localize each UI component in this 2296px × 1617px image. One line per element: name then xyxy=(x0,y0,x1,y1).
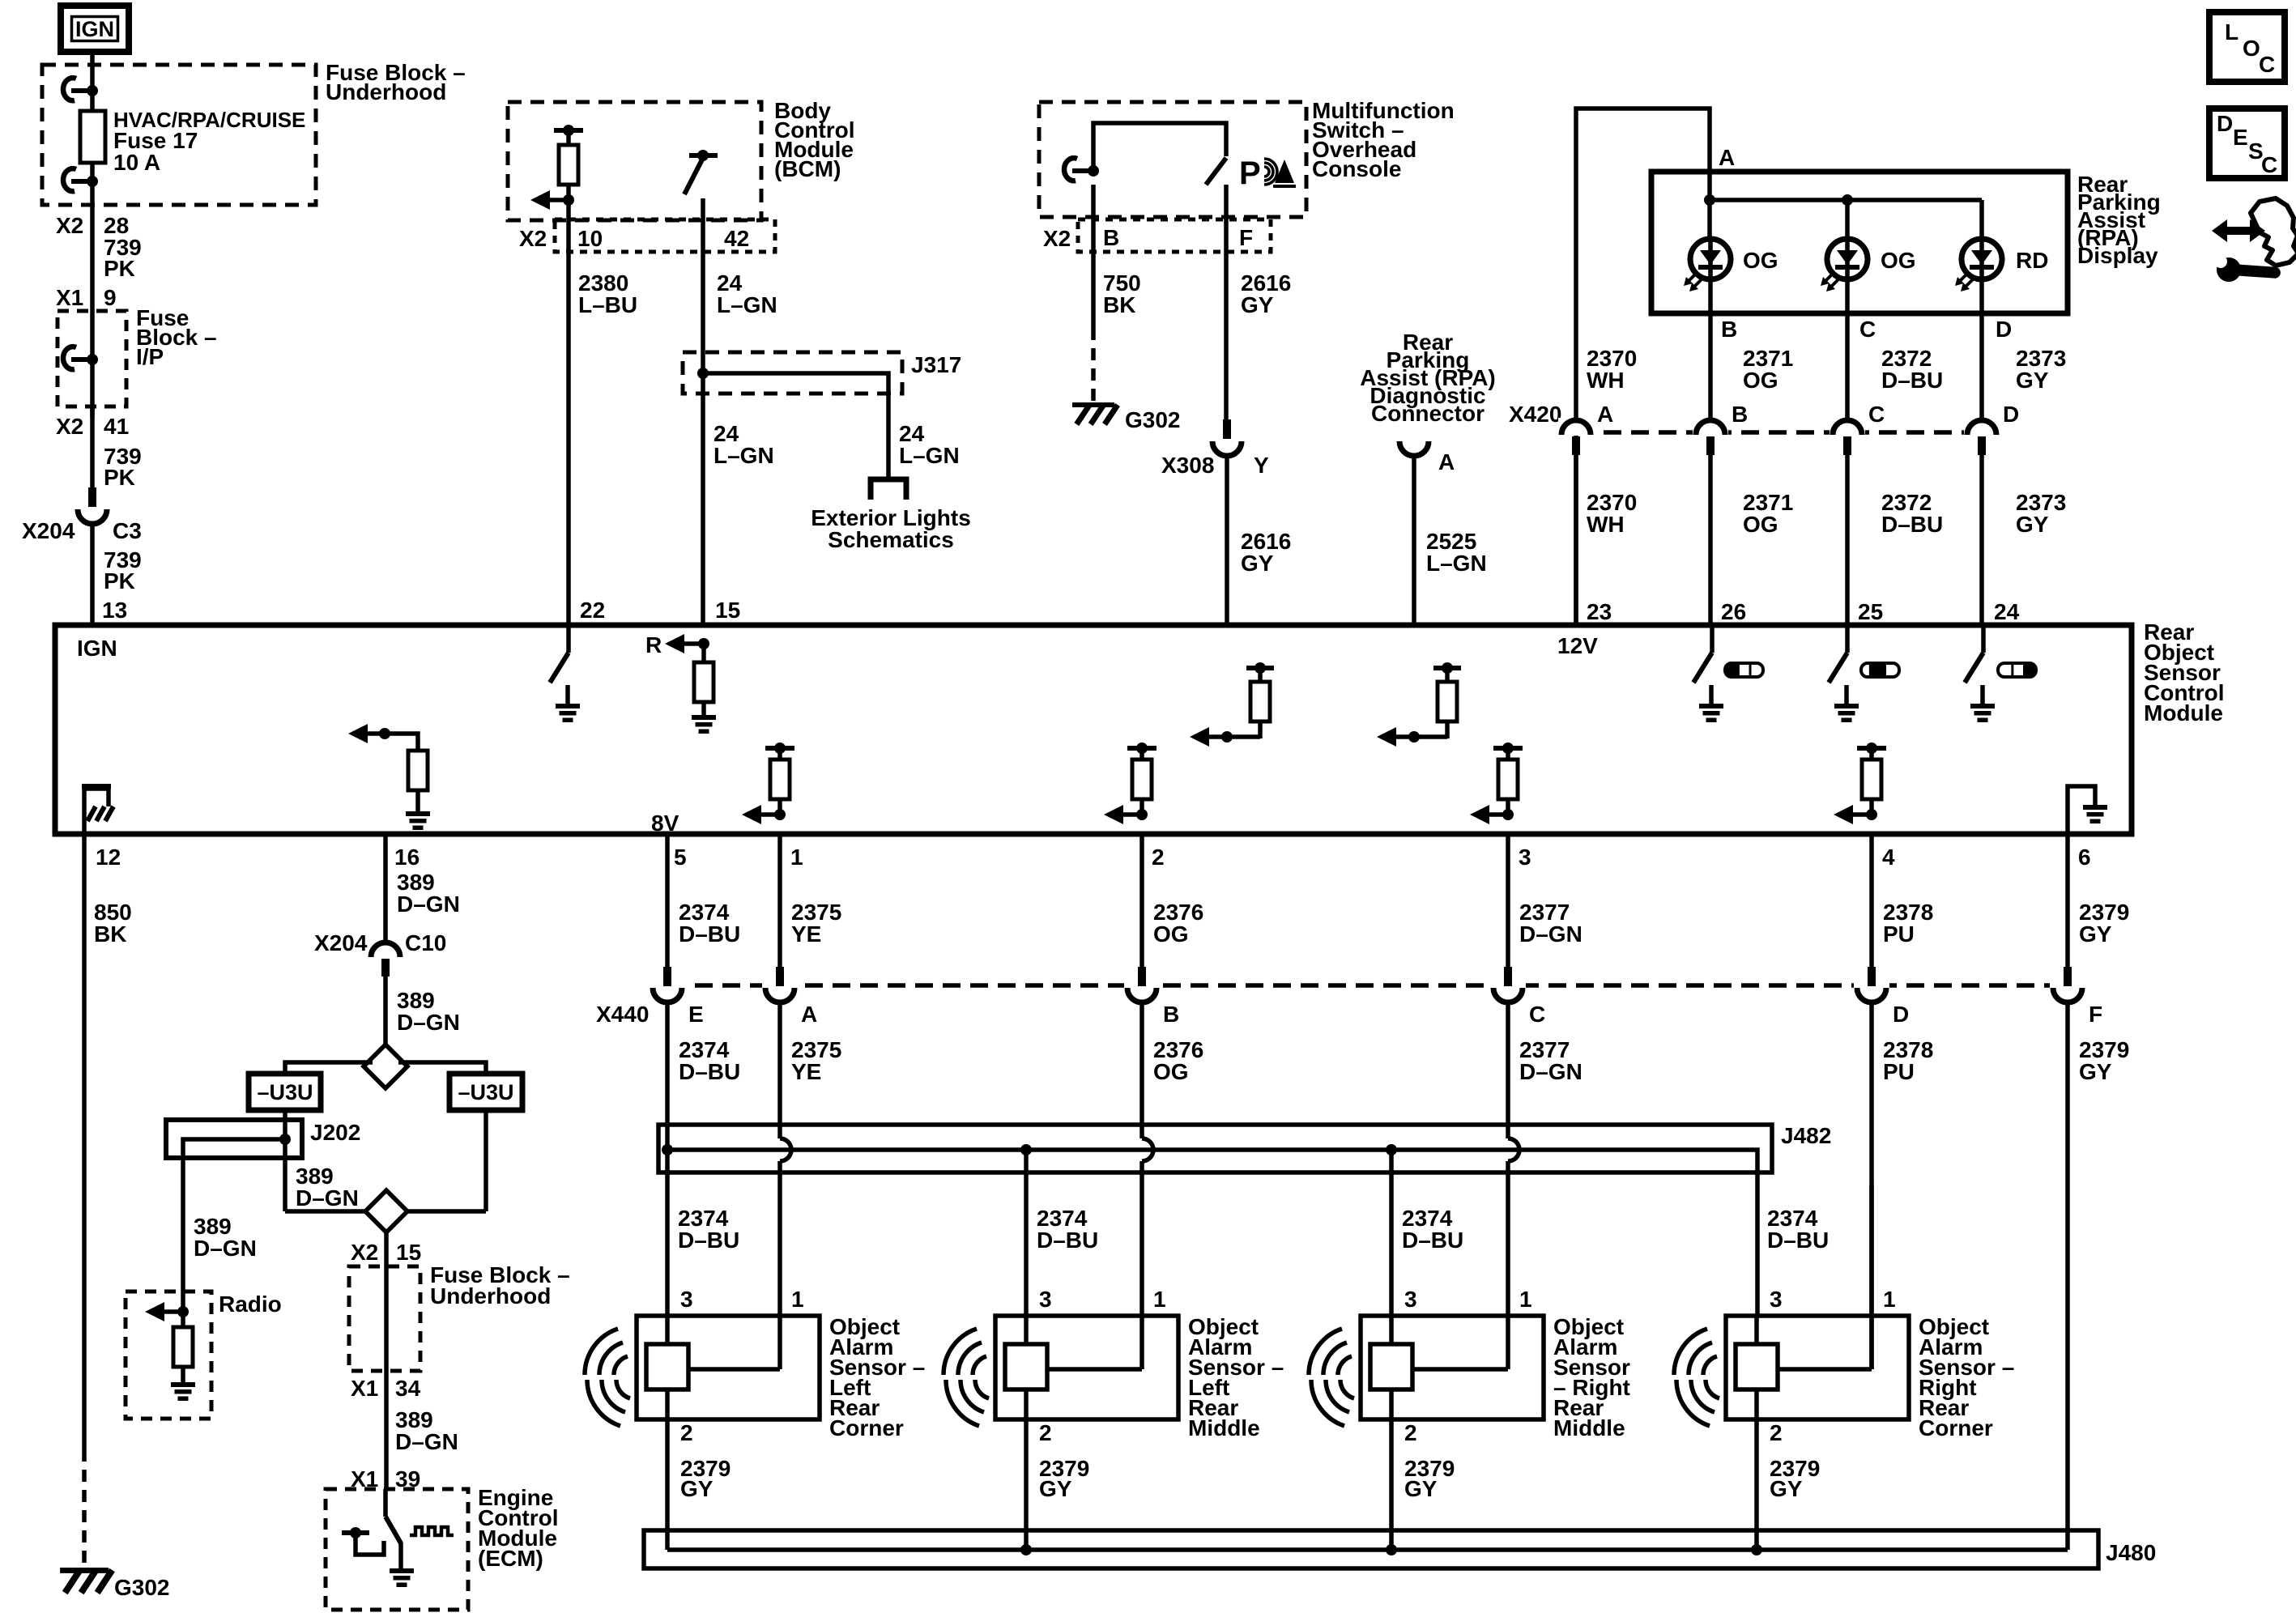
svg-text:L–GN: L–GN xyxy=(899,443,960,468)
svg-text:13: 13 xyxy=(102,598,127,623)
wire 2375 YE through J482 to sensor 1 xyxy=(777,1002,782,1138)
multifunction internal top wire xyxy=(1093,123,1226,171)
ultrasonic sound waves icon xyxy=(973,1356,986,1375)
svg-text:X2: X2 xyxy=(56,414,83,439)
J482 hop over wire B xyxy=(1142,1138,1153,1161)
svg-text:P: P xyxy=(1239,155,1261,191)
svg-text:Radio: Radio xyxy=(219,1291,282,1317)
svg-text:E: E xyxy=(2233,125,2248,150)
ECM square wave signal symbol xyxy=(410,1527,454,1535)
svg-text:42: 42 xyxy=(724,226,749,251)
svg-text:RD: RD xyxy=(2016,248,2048,273)
svg-text:D: D xyxy=(2003,402,2019,427)
LOC legend box xyxy=(2209,12,2285,82)
svg-text:I/P: I/P xyxy=(136,344,164,369)
svg-text:X420: X420 xyxy=(1509,402,1561,427)
svg-text:3: 3 xyxy=(1404,1287,1417,1312)
wire 2380 L-BU xyxy=(566,200,571,625)
svg-text:23: 23 xyxy=(1587,599,1612,624)
wire xyxy=(90,311,95,418)
svg-text:8V: 8V xyxy=(651,811,679,836)
wire 389 D-GN from pin 16 xyxy=(383,834,388,943)
connector X308 male stub xyxy=(1223,419,1231,439)
svg-text:X2: X2 xyxy=(56,213,83,238)
svg-text:25: 25 xyxy=(1858,599,1883,624)
BCM internal supply T-bar xyxy=(554,128,583,133)
svg-text:X308: X308 xyxy=(1161,453,1214,478)
BCM internal resistor xyxy=(566,133,571,145)
svg-text:12V: 12V xyxy=(1557,633,1598,658)
ECM internal switch blade xyxy=(383,1489,388,1517)
svg-text:OG: OG xyxy=(1153,921,1189,947)
svg-text:2: 2 xyxy=(1404,1420,1417,1445)
connector X440 cavity E xyxy=(650,968,685,1002)
svg-text:Module: Module xyxy=(2144,700,2223,726)
svg-text:X440: X440 xyxy=(596,1002,649,1027)
option box -U3U left xyxy=(249,1074,321,1110)
svg-text:Middle: Middle xyxy=(1188,1415,1260,1440)
multifunction pin row dashed box xyxy=(1078,219,1271,252)
wire 2525 L-GN xyxy=(1412,455,1416,625)
branch wire 2374 D-BU to sensor3 xyxy=(1389,1150,1394,1316)
wire xyxy=(90,91,95,111)
wire 2372 D-BU upper xyxy=(1845,313,1850,421)
BCM internal switch blade xyxy=(684,158,703,194)
sensor pin 3 wire through square xyxy=(665,1316,670,1344)
Fuse Block - Underhood dashed box lower xyxy=(349,1266,420,1371)
svg-text:D–GN: D–GN xyxy=(397,1010,460,1035)
splice pack J480 box xyxy=(644,1530,2098,1568)
J202 junction dot xyxy=(279,1134,291,1145)
svg-text:D–GN: D–GN xyxy=(395,1429,458,1454)
splice J317 dashed box xyxy=(683,352,902,394)
wire 2377 D-GN through J482 to sensor 3 xyxy=(1506,1002,1510,1138)
svg-text:3: 3 xyxy=(680,1287,693,1312)
svg-text:5: 5 xyxy=(674,845,687,870)
wire xyxy=(90,406,95,487)
ECM internal contact hook xyxy=(342,1530,369,1535)
svg-text:Corner: Corner xyxy=(829,1415,904,1440)
svg-text:4: 4 xyxy=(1882,845,1895,870)
splice pack J482 box xyxy=(658,1125,1772,1172)
sensor pin 3 wire through square xyxy=(1754,1316,1759,1344)
sensor pin1 internal link xyxy=(1047,1367,1142,1372)
display internal feed bus xyxy=(1707,172,1712,239)
svg-text:1: 1 xyxy=(790,845,803,870)
svg-text:41: 41 xyxy=(104,414,129,439)
svg-text:C3: C3 xyxy=(113,518,142,543)
svg-text:J482: J482 xyxy=(1781,1123,1831,1148)
svg-text:GY: GY xyxy=(680,1476,714,1501)
svg-text:3: 3 xyxy=(1039,1287,1052,1312)
sensor pin 1 wire xyxy=(1506,1185,1510,1369)
Radio dashed box xyxy=(126,1291,211,1419)
wire 2373 GY lower xyxy=(1979,454,1984,625)
J482 hop over wire A xyxy=(780,1138,791,1161)
connector X420 cavity B xyxy=(1693,418,1728,436)
svg-text:A: A xyxy=(1438,449,1455,474)
svg-text:PK: PK xyxy=(104,465,135,490)
svg-text:GY: GY xyxy=(1241,551,1274,576)
svg-text:GY: GY xyxy=(2016,368,2049,393)
ECM internal wire to ground xyxy=(398,1543,403,1568)
wire to right -U3U option xyxy=(398,1062,486,1074)
svg-text:3: 3 xyxy=(1519,845,1531,870)
object alarm sensor box at x=2169 xyxy=(1726,1316,1909,1419)
svg-text:OG: OG xyxy=(1743,368,1778,393)
radio internal resistor xyxy=(181,1312,185,1327)
svg-text:15: 15 xyxy=(396,1240,421,1265)
svg-text:D–BU: D–BU xyxy=(1402,1228,1463,1253)
wire 2379 GY pin6 to X440 xyxy=(2065,834,2070,968)
svg-text:2: 2 xyxy=(1152,845,1165,870)
svg-text:B: B xyxy=(1103,225,1119,250)
BCM internal junction + left arrow xyxy=(566,185,571,200)
svg-text:D–GN: D–GN xyxy=(1519,921,1582,947)
fuse clip I/P xyxy=(71,357,92,362)
connector X308 female cup xyxy=(1212,441,1242,456)
svg-text:D: D xyxy=(1893,1002,1909,1027)
sensor pin 3 wire through square xyxy=(1024,1316,1029,1344)
svg-text:G302: G302 xyxy=(114,1575,170,1600)
svg-text:X204: X204 xyxy=(314,930,368,955)
BCM pin row dashed box xyxy=(555,219,775,252)
svg-text:PU: PU xyxy=(1883,921,1915,947)
IGN power symbol box xyxy=(61,6,129,52)
Body Control Module dashed box xyxy=(508,102,761,220)
svg-text:E: E xyxy=(688,1002,704,1027)
svg-text:F: F xyxy=(2089,1002,2102,1027)
svg-text:G302: G302 xyxy=(1125,407,1181,432)
svg-text:X1: X1 xyxy=(56,285,83,310)
display zone pill right xyxy=(1998,663,2036,677)
Rear Object Sensor Control Module box xyxy=(55,625,2132,834)
svg-text:D–GN: D–GN xyxy=(1519,1059,1582,1084)
J480 internal bus xyxy=(667,1547,2068,1552)
svg-text:A: A xyxy=(801,1002,817,1027)
module internal switch to ground at pin 22 xyxy=(566,628,571,653)
connector X440 cavity A xyxy=(762,968,798,1002)
LED output wires to box bottom xyxy=(1708,279,1713,313)
off-page connector to exterior lights xyxy=(871,479,906,500)
Multifunction Switch - Overhead Console dashed box xyxy=(1039,102,1306,217)
wire 850 BK solid xyxy=(82,834,87,1449)
wire xyxy=(90,163,95,217)
wire to left -U3U option xyxy=(285,1062,373,1074)
svg-text:GY: GY xyxy=(2016,512,2049,537)
svg-text:GY: GY xyxy=(1404,1476,1438,1501)
ground G302 chassis symbol bottom xyxy=(60,1568,109,1573)
fuse HVAC/RPA/CRUISE xyxy=(80,111,105,163)
sensor element square xyxy=(1736,1344,1778,1389)
module internal input from X308 xyxy=(1221,731,1233,743)
wire 2377 D-GN pin3 to X440 xyxy=(1506,834,1510,968)
svg-text:GY: GY xyxy=(2079,1059,2112,1084)
svg-text:GY: GY xyxy=(1770,1476,1803,1501)
svg-text:Console: Console xyxy=(1312,156,1401,181)
svg-text:L–GN: L–GN xyxy=(714,443,774,468)
option box -U3U right xyxy=(449,1074,522,1110)
wire 2616 GY lower xyxy=(1225,455,1229,625)
svg-text:X2: X2 xyxy=(351,1240,378,1265)
svg-text:D: D xyxy=(1996,317,2012,342)
svg-text:Underhood: Underhood xyxy=(326,79,446,104)
sensor pin2 wires to J480 xyxy=(665,1419,670,1550)
ultrasonic sound waves icon xyxy=(1703,1356,1717,1375)
svg-text:2: 2 xyxy=(1039,1420,1052,1445)
svg-text:D–GN: D–GN xyxy=(194,1236,257,1261)
svg-text:IGN: IGN xyxy=(75,17,114,41)
module internal pull-up at pin 1 xyxy=(765,746,794,751)
radio internal ground xyxy=(171,1382,195,1387)
display zone pill middle xyxy=(1861,663,1899,677)
wire 2616 GY upper xyxy=(1224,185,1229,419)
J202 internal bus to radio branch xyxy=(183,1139,285,1312)
svg-text:WH: WH xyxy=(1587,368,1625,393)
connector X204 C10 female cap xyxy=(371,943,400,957)
J482 internal bus xyxy=(667,1150,1757,1172)
svg-text:X1: X1 xyxy=(351,1376,378,1401)
RPA diagnostic connector cup xyxy=(1399,441,1429,456)
wire 2378 PU down to sensor 4 xyxy=(1869,1002,1874,1369)
fuse clip lower xyxy=(71,179,92,184)
svg-text:C: C xyxy=(2261,152,2277,177)
svg-text:IGN: IGN xyxy=(77,636,117,661)
svg-text:X2: X2 xyxy=(1043,226,1071,251)
connector X204 C3 female cup xyxy=(78,509,107,524)
J317 junction dot xyxy=(697,368,709,379)
connector X440 cavity D xyxy=(1854,968,1889,1002)
wire 24 L-GN from pin 42 xyxy=(701,198,705,625)
ground G302 chassis symbol xyxy=(1072,402,1114,407)
svg-text:J317: J317 xyxy=(911,352,961,377)
svg-text:–U3U: –U3U xyxy=(257,1080,313,1104)
wire xyxy=(90,523,95,625)
module internal resistor to ground at pin 15 xyxy=(701,644,706,662)
connector X420 cavity D xyxy=(1964,418,2000,436)
svg-text:10: 10 xyxy=(577,226,603,251)
svg-text:D–GN: D–GN xyxy=(296,1185,359,1211)
svg-text:Display: Display xyxy=(2077,243,2158,268)
svg-text:OG: OG xyxy=(1153,1059,1189,1084)
object alarm sensor box at x=824 xyxy=(637,1316,820,1419)
svg-text:F: F xyxy=(1239,225,1253,250)
svg-text:Corner: Corner xyxy=(1919,1415,1993,1440)
svg-text:C10: C10 xyxy=(405,930,446,955)
connector X204 C10 male stub xyxy=(381,959,390,977)
fuse clip upper xyxy=(71,88,92,93)
wire below lower diamond xyxy=(384,1232,389,1266)
J480 junction dots xyxy=(1020,1544,1032,1555)
wire 750 BK dashed part xyxy=(1091,328,1096,402)
wire right branch down xyxy=(483,1110,488,1211)
svg-text:C: C xyxy=(2259,52,2275,77)
sensor pin1 internal link xyxy=(688,1367,780,1372)
svg-text:3: 3 xyxy=(1770,1287,1783,1312)
module internal input from diagnostic connector xyxy=(1408,731,1420,743)
display zone pill near-left xyxy=(1725,663,1763,677)
connector X440 dashed linkage xyxy=(667,983,2068,988)
svg-text:D–BU: D–BU xyxy=(1881,512,1943,537)
svg-text:C: C xyxy=(1859,317,1876,342)
Fuse Block - Underhood dashed box xyxy=(42,65,316,205)
J317 branch wire right and down xyxy=(703,373,888,477)
splice J202 box xyxy=(166,1120,302,1158)
multifunction switch blade xyxy=(1206,158,1226,185)
svg-text:GY: GY xyxy=(1039,1476,1072,1501)
module internal pull-up at pin 3 xyxy=(1493,746,1523,751)
connector X420 cavity A xyxy=(1558,418,1594,436)
svg-text:J480: J480 xyxy=(2106,1540,2156,1565)
svg-text:YE: YE xyxy=(791,921,821,947)
wire 2376 OG through J482 to sensor 2 xyxy=(1139,1002,1144,1138)
module internal ground at pin 6 xyxy=(2068,786,2095,834)
svg-text:22: 22 xyxy=(580,598,605,623)
module internal switch at pin 25 xyxy=(1845,628,1850,653)
connector X440 cavity C xyxy=(1490,968,1526,1002)
svg-text:B: B xyxy=(1732,402,1748,427)
radio internal junction arrow xyxy=(177,1306,189,1317)
multifunction clip contact xyxy=(1072,168,1093,173)
svg-text:Underhood: Underhood xyxy=(430,1283,551,1308)
svg-text:D–GN: D–GN xyxy=(397,891,460,917)
svg-text:PK: PK xyxy=(104,256,135,281)
svg-text:12: 12 xyxy=(96,845,121,870)
sensor element square xyxy=(1370,1344,1412,1389)
object alarm sensor box at x=1718 xyxy=(1361,1316,1544,1419)
service hand and wrench icon xyxy=(2212,219,2265,242)
wire 2372 D-BU lower xyxy=(1845,454,1850,625)
svg-text:B: B xyxy=(1163,1002,1179,1027)
svg-text:1: 1 xyxy=(1153,1287,1166,1312)
DESC legend box xyxy=(2209,109,2285,178)
svg-text:Schematics: Schematics xyxy=(828,527,954,552)
svg-text:2: 2 xyxy=(1770,1420,1783,1445)
wire through fuse block xyxy=(384,1266,389,1489)
svg-text:R: R xyxy=(645,632,662,657)
svg-text:34: 34 xyxy=(395,1376,421,1401)
J482 junction dots xyxy=(662,1144,673,1155)
sensor element square xyxy=(1005,1344,1047,1389)
ultrasonic sound waves icon xyxy=(614,1356,628,1375)
svg-text:D–BU: D–BU xyxy=(679,921,740,947)
svg-text:PK: PK xyxy=(104,568,135,594)
svg-text:WH: WH xyxy=(1587,512,1625,537)
svg-text:2: 2 xyxy=(680,1420,693,1445)
svg-text:X204: X204 xyxy=(22,518,75,543)
connector X440 cavity F xyxy=(2050,968,2085,1002)
Engine Control Module dashed box xyxy=(326,1489,468,1610)
wire 389 D-GN below C10 xyxy=(383,977,388,1045)
svg-text:OG: OG xyxy=(1743,512,1778,537)
svg-text:OG: OG xyxy=(1743,248,1778,273)
wire 2374 D-BU into J482 xyxy=(665,1002,670,1150)
splice diamond lower xyxy=(285,1209,365,1214)
svg-text:D–BU: D–BU xyxy=(679,1059,740,1084)
LED middle orange xyxy=(1827,239,1868,279)
svg-text:BK: BK xyxy=(1103,292,1135,317)
ultrasonic sound waves icon xyxy=(1338,1356,1352,1375)
sensor pin1 internal link xyxy=(1412,1367,1508,1372)
module internal switch at pin 26 xyxy=(1710,628,1715,653)
wire 2370 WH lower xyxy=(1574,454,1578,625)
svg-text:1: 1 xyxy=(791,1287,804,1312)
connector X204 C3 male stub xyxy=(88,487,96,507)
svg-text:O: O xyxy=(2243,36,2260,61)
LED left orange xyxy=(1690,239,1731,279)
wire left branch down xyxy=(283,1110,288,1211)
Rear Parking Assist (RPA) Display box xyxy=(1651,172,2068,313)
sensor pin 1 wire xyxy=(1869,1185,1874,1369)
sensor pin1 internal link xyxy=(1778,1367,1872,1372)
LED right red xyxy=(1962,239,2002,279)
branch wire 2374 D-BU to sensor4 xyxy=(1755,1172,1760,1316)
svg-text:9: 9 xyxy=(104,285,117,310)
svg-text:(BCM): (BCM) xyxy=(774,156,841,181)
svg-text:6: 6 xyxy=(2078,845,2091,870)
svg-text:D–BU: D–BU xyxy=(1037,1228,1098,1253)
svg-text:C: C xyxy=(1868,402,1885,427)
sensor pin 1 wire xyxy=(1139,1185,1144,1369)
svg-text:D: D xyxy=(2217,111,2233,136)
svg-text:Y: Y xyxy=(1254,453,1269,478)
svg-text:L: L xyxy=(2225,19,2238,45)
module internal pull-up at pin 2 xyxy=(1127,746,1157,751)
svg-text:B: B xyxy=(1721,317,1737,342)
svg-text:A: A xyxy=(1719,145,1735,170)
wire 2379 GY down to J480 xyxy=(2065,1002,2070,1550)
svg-text:X2: X2 xyxy=(519,226,547,251)
svg-text:Connector: Connector xyxy=(1371,401,1485,426)
wire IGN to fuse block xyxy=(90,52,95,91)
wire 2371 OG lower xyxy=(1708,454,1713,625)
svg-text:D–BU: D–BU xyxy=(1881,368,1943,393)
svg-text:PU: PU xyxy=(1883,1059,1915,1084)
svg-text:Middle: Middle xyxy=(1553,1415,1625,1440)
module internal switch at pin 24 xyxy=(1981,628,1986,653)
wire 2370 WH feed from module pin 23 xyxy=(1576,109,1710,625)
wire 2378 PU pin4 to X440 xyxy=(1869,834,1874,968)
svg-text:1: 1 xyxy=(1883,1287,1896,1312)
svg-text:OG: OG xyxy=(1881,248,1916,273)
wire xyxy=(90,217,95,311)
svg-text:A: A xyxy=(1597,402,1613,427)
svg-text:BK: BK xyxy=(94,921,126,947)
connector X420 dashed linkage xyxy=(1576,430,1983,435)
svg-text:C: C xyxy=(1529,1002,1545,1027)
wire 2375 YE pin1 to X440 xyxy=(777,834,782,968)
sensor pin 1 wire xyxy=(777,1185,782,1369)
svg-text:–U3U: –U3U xyxy=(458,1080,513,1104)
object alarm sensor box at x=1267 xyxy=(995,1316,1178,1419)
J482 hop over wire C xyxy=(1508,1138,1519,1161)
connector X420 cavity C xyxy=(1830,418,1865,436)
wire 2373 GY upper xyxy=(1979,313,1984,421)
svg-text:L–GN: L–GN xyxy=(717,292,777,317)
svg-text:L–BU: L–BU xyxy=(578,292,637,317)
wire 850 BK dashed xyxy=(82,1449,87,1568)
branch wire 2374 D-BU to sensor1 xyxy=(665,1150,670,1316)
svg-text:D–BU: D–BU xyxy=(1767,1228,1829,1253)
BCM internal switch T-bar xyxy=(689,153,718,158)
module internal 8V reference branch at pin 16 xyxy=(379,728,390,739)
wire 750 BK solid part xyxy=(1091,185,1096,328)
svg-text:(ECM): (ECM) xyxy=(478,1546,543,1571)
module internal ground at pin 12 xyxy=(84,789,109,834)
connector X440 cavity B xyxy=(1124,968,1160,1002)
svg-text:J202: J202 xyxy=(310,1120,360,1145)
ECM internal ground xyxy=(390,1568,414,1573)
